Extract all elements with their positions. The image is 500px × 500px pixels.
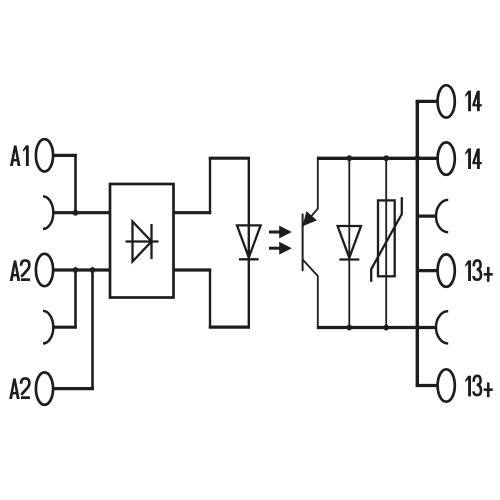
varistor R1 diagonal (371, 197, 402, 282)
phototransistor Q1 collector arrowhead (304, 213, 316, 226)
LED D2 cathode bar (239, 258, 259, 260)
wire bus to terminal 13+ upper (417, 269, 437, 272)
optocoupler arrow 2 (269, 242, 292, 255)
wire A1 vertical to node (74, 154, 77, 214)
junction node A2 x75 (73, 267, 78, 273)
wire A2 lower horizontal (53, 387, 94, 390)
varistor R1 branch wire (385, 158, 387, 327)
wire A2 to input block (53, 268, 110, 271)
terminal 14 upper (438, 85, 455, 117)
diode D3 triangle (338, 226, 361, 258)
junction node bottom rail varistor (384, 325, 389, 331)
diode D3 branch wire (348, 158, 350, 327)
wire bus to terminal 13+ lower (416, 384, 438, 387)
terminal A2 upper (36, 254, 53, 286)
phototransistor Q1 emitter (303, 260, 318, 330)
socket arc row5 right (436, 311, 448, 343)
wire block to LED bottom vertical (209, 269, 211, 329)
socket arc row2 left (43, 196, 53, 229)
terminal A2 lower (36, 372, 53, 404)
wire block to LED top vertical (209, 157, 211, 214)
wire arc row2 to input block (53, 211, 111, 214)
wire arc row4 vertical to node (74, 269, 77, 329)
junction node arc row2/A1 (73, 210, 78, 216)
input block U1 (110, 184, 174, 298)
phototransistor Q1 collector (303, 157, 318, 226)
diode D3 cathode bar (339, 258, 359, 260)
terminal A1 (36, 139, 53, 171)
label A2 upper (10, 260, 30, 281)
wire A1 horizontal (53, 154, 77, 157)
right bus vertical (416, 100, 419, 387)
wire bus to terminal 14 upper (416, 100, 438, 103)
LED D2 triangle (237, 225, 261, 257)
junction node top rail varistor (384, 155, 389, 161)
terminal 13+ upper (438, 254, 455, 286)
label 13+ lower (465, 376, 493, 397)
wire block to LED bottom horizontal 2 (209, 326, 250, 329)
bottom rail (317, 326, 437, 329)
junction node bottom rail diode (347, 325, 352, 331)
wire A2 lower vertical to node (91, 269, 94, 390)
wire block to LED top horizontal 2 (209, 157, 250, 160)
label 13+ upper (465, 260, 493, 281)
diode D1 triangle (133, 222, 152, 262)
label 14 upper (465, 91, 482, 112)
phototransistor Q1 base bar (302, 214, 304, 272)
label A2 lower (9, 378, 30, 399)
terminal 13+ lower (438, 369, 455, 401)
terminal 14 lower (438, 142, 455, 174)
socket arc row3 right (436, 200, 448, 232)
top rail (317, 157, 437, 160)
junction node top rail diode (347, 155, 352, 161)
wire LED branch vertical (248, 157, 250, 328)
diode D1 cathode bar (150, 224, 152, 259)
varistor R1 body (378, 200, 395, 276)
wire block to LED bottom horizontal 1 (174, 268, 212, 271)
wire block to LED top horizontal 1 (174, 211, 212, 214)
optocoupler arrow 1 (269, 226, 292, 239)
socket arc row4 left (43, 311, 53, 344)
label 14 lower (465, 148, 482, 169)
wire bus to socket arc row3 (417, 215, 436, 218)
wire arc row4 horizontal (53, 326, 77, 329)
label A1 (10, 145, 29, 166)
junction node A2 x92 (90, 267, 95, 273)
diode D1 wire inside block (126, 240, 159, 242)
junction node top rail bus (415, 155, 420, 161)
